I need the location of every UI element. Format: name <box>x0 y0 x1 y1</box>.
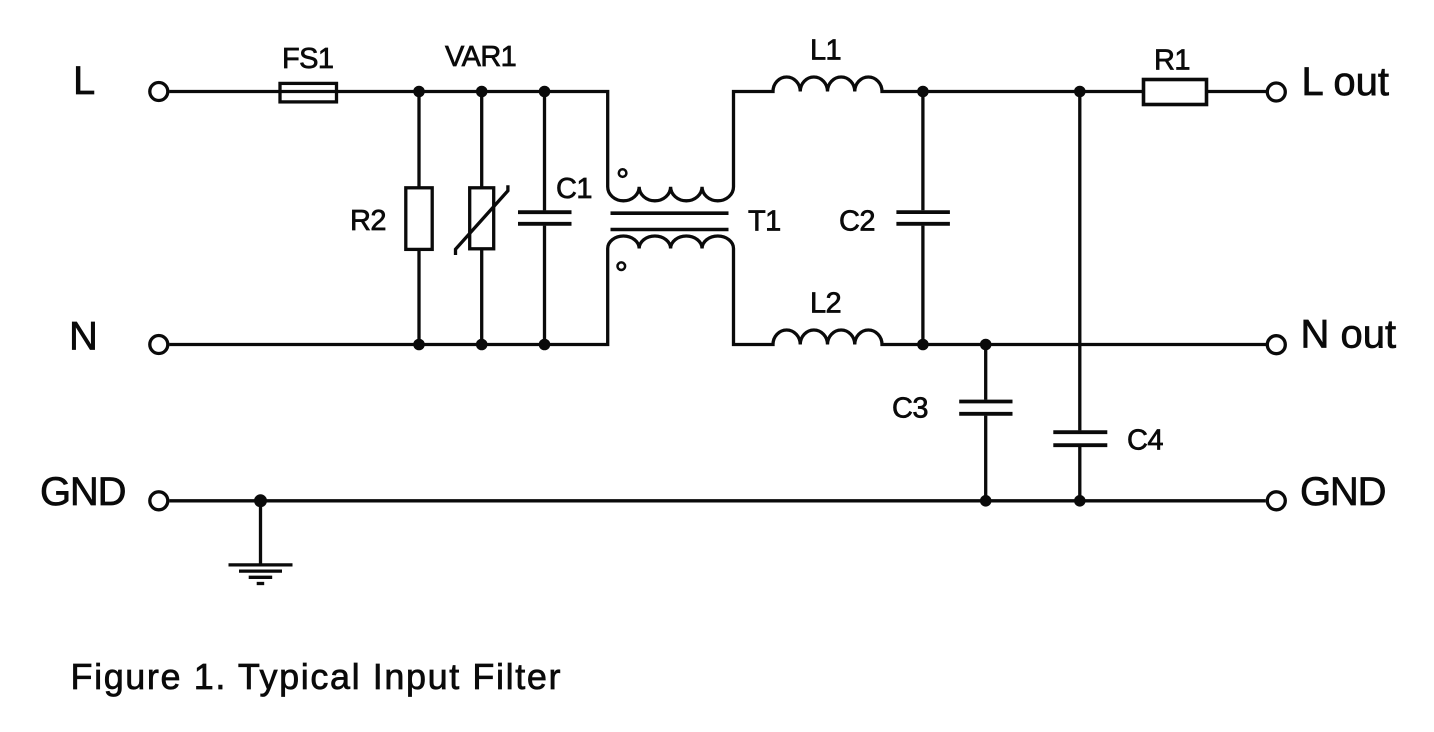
svg-text:C1: C1 <box>556 173 592 205</box>
svg-text:L2: L2 <box>810 288 841 320</box>
svg-text:N: N <box>69 315 98 359</box>
svg-text:T1: T1 <box>748 206 781 238</box>
svg-text:VAR1: VAR1 <box>445 41 516 73</box>
svg-text:L out: L out <box>1302 60 1389 104</box>
svg-text:GND: GND <box>40 470 125 514</box>
svg-text:FS1: FS1 <box>282 43 333 75</box>
svg-text:R1: R1 <box>1154 45 1190 77</box>
svg-text:R2: R2 <box>350 205 386 237</box>
svg-text:C4: C4 <box>1127 425 1163 457</box>
svg-text:N out: N out <box>1301 313 1397 357</box>
svg-text:C2: C2 <box>839 206 875 238</box>
svg-text:GND: GND <box>1300 470 1385 514</box>
svg-text:C3: C3 <box>892 393 928 425</box>
svg-text:Figure 1. Typical Input Filter: Figure 1. Typical Input Filter <box>71 656 563 697</box>
svg-text:L: L <box>73 59 95 103</box>
svg-text:L1: L1 <box>810 35 841 67</box>
